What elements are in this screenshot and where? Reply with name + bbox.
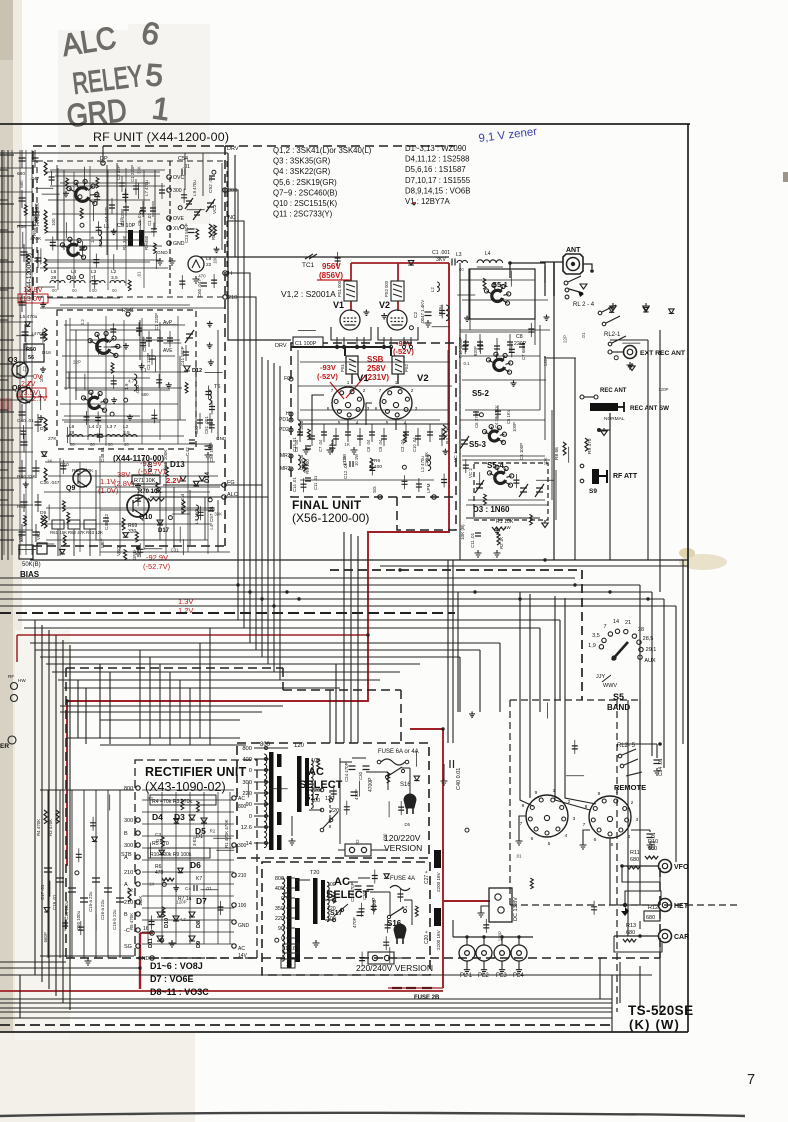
heavy grid drop V2	[390, 347, 392, 356]
C33 ground	[647, 842, 654, 849]
svg-text:800: 800	[242, 746, 252, 752]
center bundle wire 3	[255, 354, 257, 650]
svg-text:210: 210	[228, 295, 237, 301]
svg-text:D6: D6	[190, 860, 201, 870]
L4 core lines	[477, 267, 503, 269]
ac select upper field wire 1	[270, 788, 288, 790]
final unit field capacitor 3	[302, 465, 308, 468]
svg-text:120: 120	[327, 906, 336, 912]
x44-1170 field capacitor 20	[110, 329, 116, 332]
s5 column field wire 14	[457, 294, 475, 296]
svg-text:3KV: 3KV	[436, 257, 446, 263]
x44-1170 field wire 5	[155, 356, 157, 372]
svg-text:V1: V1	[333, 300, 344, 310]
rf lower field capacitor lead 10	[200, 506, 202, 520]
T1 tap terminal 90	[265, 803, 268, 806]
rectifier field ground 19	[173, 885, 179, 891]
svg-text:REC ANT: REC ANT	[600, 388, 627, 394]
svg-text:C16-b 22u: C16-b 22u	[112, 909, 117, 930]
AC upper wire v1	[409, 768, 411, 800]
rectifier mesh h0	[142, 789, 234, 791]
final unit ground 2	[351, 447, 358, 454]
left column wire 0	[0, 167, 33, 169]
left column capacitor 1	[32, 158, 39, 161]
bus 620	[18, 619, 560, 621]
left bleed stub 12	[0, 461, 14, 463]
relay contact a	[564, 281, 568, 285]
rectifier field diode 14	[178, 868, 183, 873]
left column wire 8	[0, 375, 33, 377]
RF capacitor 1	[119, 183, 125, 186]
svg-text:10K: 10K	[212, 256, 217, 264]
final terminal SG	[378, 495, 382, 499]
svg-text:00: 00	[124, 442, 129, 447]
svg-text:R56: R56	[425, 454, 430, 463]
RF ATT switch bar	[592, 469, 599, 484]
s5 column field capacitor 19	[477, 346, 483, 349]
dashed bus 613	[0, 612, 455, 614]
remote to C33 wire	[631, 829, 650, 831]
x44-1170 field capacitor 25	[95, 347, 101, 350]
box wire v8	[105, 316, 107, 446]
psu dashed top	[66, 667, 283, 669]
S5 capacitor 0	[463, 342, 469, 345]
rf top right field node 9	[180, 225, 184, 229]
left bleed rung 8	[0, 409, 8, 411]
bus 672	[52, 671, 400, 673]
rf top left field resistor 20	[96, 177, 99, 188]
x44-1170 field resistor 2	[111, 363, 114, 374]
x44-1170 field wire 18	[68, 372, 70, 388]
1170 cap lead 6	[209, 413, 211, 429]
svg-text:GND: GND	[138, 956, 150, 962]
1170 wire h0	[70, 329, 160, 331]
s5 column field ground 2	[494, 528, 500, 534]
wire CAR loop	[639, 921, 641, 929]
svg-text:5: 5	[548, 841, 551, 847]
S17 contact l0	[332, 898, 335, 901]
svg-text:R5 470K: R5 470K	[129, 913, 134, 930]
svg-text:1470K: 1470K	[31, 331, 46, 337]
rf strip field ground 1	[207, 321, 213, 327]
bottom bus 1008	[0, 1007, 612, 1009]
svg-text:10K: 10K	[543, 457, 548, 465]
left bleed rung 10	[0, 469, 8, 471]
rf strip field capacitor lead 5	[211, 419, 213, 433]
fuse 2B dashes	[392, 987, 432, 989]
frame top line	[0, 123, 690, 125]
terminal FG final	[289, 377, 293, 381]
AC lower wire 7	[360, 957, 368, 959]
terminal H final	[289, 412, 293, 416]
rotary switch S5-3	[483, 425, 507, 445]
RF gnd a	[157, 258, 164, 265]
rect feed v2	[159, 664, 161, 738]
V2 pin 0	[383, 337, 385, 346]
svg-text:120P: 120P	[658, 387, 668, 392]
bottom dashed bus 1025	[0, 1024, 612, 1026]
wire antenna column	[553, 296, 555, 560]
bus 688	[64, 687, 340, 689]
S5 wire h5	[468, 499, 545, 501]
svg-text:100: 100	[311, 798, 320, 804]
RF wire h4	[45, 259, 160, 261]
rf lower field wire 4	[48, 505, 50, 521]
right drop 683	[682, 560, 684, 744]
filter bank field capacitor 12	[62, 923, 68, 926]
plate choke PS1	[344, 281, 357, 301]
RF inner terminal 300	[167, 188, 171, 192]
left bleed rung 3	[0, 259, 8, 261]
svg-text:FUSE 4A: FUSE 4A	[390, 876, 415, 882]
AC lower wire 5	[370, 891, 390, 893]
box wire h3	[52, 213, 160, 215]
left column capacitor 3	[33, 212, 40, 215]
psu dashed right	[659, 868, 661, 958]
bus junction 14	[138, 966, 141, 969]
RL2-5 wire	[620, 743, 657, 745]
driver area field capacitor 6	[335, 258, 341, 261]
left bleed stub 6	[0, 315, 14, 317]
T1 tap wire 800	[254, 747, 269, 749]
driver area field node 5	[409, 326, 413, 330]
red box -3.5V	[18, 388, 46, 397]
final wire left	[297, 350, 299, 420]
grid choke to socket V2	[397, 374, 399, 384]
R71 box	[132, 475, 160, 484]
V1 pin 3	[363, 337, 365, 346]
C2 gnd	[425, 320, 432, 327]
trimmer s54 b	[535, 484, 544, 497]
svg-text:HET: HET	[674, 903, 689, 910]
svg-text:B: B	[124, 912, 128, 918]
wire antenna column b	[544, 266, 546, 296]
svg-text:680: 680	[19, 180, 24, 188]
svg-text:90: 90	[278, 926, 284, 932]
final unit field capacitor 8	[441, 480, 447, 483]
1170 wire v0	[65, 320, 67, 390]
RF capacitor lead 6	[161, 183, 163, 199]
left column resistor 2	[44, 258, 47, 271]
bus 585	[0, 584, 640, 586]
svg-text:V1,2 : S2001A: V1,2 : S2001A	[281, 289, 336, 299]
rf lower field capacitor lead 15	[137, 492, 139, 506]
left column capacitor 11	[19, 468, 26, 471]
wire FG to bundle	[226, 485, 262, 560]
rectifier mesh v2	[175, 792, 177, 944]
x44-1170 field wire 9	[163, 342, 181, 344]
HET jack	[659, 899, 672, 912]
rect gnd d11	[169, 940, 176, 947]
svg-text:1.9: 1.9	[124, 383, 129, 390]
V1 pin 1	[343, 337, 345, 346]
R4 R3 label box	[150, 795, 216, 805]
remote dashed left	[509, 700, 511, 905]
svg-text:GND: GND	[216, 436, 227, 441]
wire to S5-1 box	[509, 263, 511, 278]
sockets area field capacitor 10	[572, 746, 578, 749]
psu top drop c	[99, 664, 101, 738]
V1 pin circle 1	[342, 345, 345, 348]
svg-text:D12: D12	[192, 368, 202, 374]
bias lead 0	[57, 529, 59, 556]
RF unit outer dashed right	[224, 146, 226, 546]
left bleed field wire 4	[36, 543, 54, 545]
s5 column field wire 16	[479, 472, 481, 488]
svg-text:DRV: DRV	[227, 146, 239, 152]
RF rotary switch a	[67, 179, 99, 205]
final unit dashed box	[291, 343, 456, 497]
ER connector	[8, 736, 16, 744]
bus 628	[24, 627, 540, 629]
wire RF top	[0, 152, 228, 154]
rf lower field node 23	[208, 498, 212, 502]
S16 contact ua	[385, 775, 388, 778]
box wire v19	[187, 456, 189, 552]
rf top left field capacitor lead 32	[51, 171, 53, 185]
svg-text:680: 680	[382, 833, 387, 841]
x44-1170 field capacitor lead 27	[153, 409, 155, 423]
wire DRV drop	[228, 153, 291, 340]
terminal PD1	[289, 418, 293, 422]
sockets area field wire 6	[566, 775, 584, 777]
svg-text:C48 81: C48 81	[100, 447, 105, 462]
left bundle vertical 3	[55, 635, 57, 996]
filter capacitor 3	[80, 898, 88, 902]
left bundle vertical 2	[48, 630, 50, 989]
left bleed field wire 7	[18, 548, 36, 550]
svg-text:680: 680	[17, 171, 25, 177]
left bleed stub 8	[0, 363, 14, 365]
mic connector a	[11, 683, 18, 690]
S5 cap lead 3	[509, 334, 511, 352]
svg-text:PS1: PS1	[340, 363, 345, 372]
svg-text:RF UNIT (X44-1200-00): RF UNIT (X44-1200-00)	[93, 130, 229, 144]
svg-text:C7 .04: C7 .04	[318, 439, 323, 452]
T2 tap wire 90 928	[286, 927, 295, 929]
s5 column field capacitor lead 4	[530, 323, 532, 337]
rect terminal 300 845	[136, 843, 140, 847]
svg-text:C24 470P: C24 470P	[344, 762, 349, 782]
svg-text:FUSE 2B: FUSE 2B	[414, 995, 440, 1001]
S5 wire v4	[551, 410, 553, 500]
lower RF wire h1	[100, 509, 215, 511]
red wire PS2 drop	[397, 263, 399, 281]
rectifier mesh h3	[142, 823, 234, 825]
gnd R2 area	[494, 550, 501, 557]
svg-text:33K: 33K	[136, 166, 141, 174]
V2 pin circle 0	[382, 345, 385, 348]
box wire h17	[48, 475, 218, 477]
terminal lower a	[372, 955, 377, 960]
svg-text:33K: 33K	[214, 512, 222, 517]
svg-text:EXT REC ANT: EXT REC ANT	[640, 350, 686, 357]
bottom bus 1003	[0, 1002, 612, 1004]
rect feed h745	[100, 744, 246, 746]
svg-text:120: 120	[294, 743, 305, 749]
svg-text:C1: C1	[22, 365, 27, 371]
svg-text:800: 800	[275, 876, 284, 882]
svg-text:C11 .01: C11 .01	[313, 475, 318, 490]
S16 blade upper	[388, 767, 402, 776]
svg-text:680: 680	[648, 846, 657, 852]
s5 b+ companion a	[447, 560, 449, 743]
V1 base wire	[331, 327, 371, 340]
svg-text:RF: RF	[8, 674, 14, 679]
svg-text:.047: .047	[30, 176, 40, 182]
rf top left field capacitor 16	[96, 227, 102, 230]
rf strip field capacitor 6	[209, 407, 215, 410]
band position 29,1	[639, 647, 643, 651]
svg-text:FUSE 6A or 4A: FUSE 6A or 4A	[378, 749, 419, 755]
left bleed stub 7	[0, 339, 14, 341]
left column cap lead 3	[35, 204, 37, 222]
final unit field capacitor lead 8	[443, 474, 445, 488]
filter bank field capacitor lead 7	[92, 817, 94, 831]
svg-text:C27 +: C27 +	[424, 870, 430, 884]
svg-text:.000: .000	[135, 385, 140, 394]
grid choke PS1 inner	[346, 356, 358, 374]
psu dashed step	[282, 668, 284, 690]
s5 column field wire 15	[510, 271, 512, 287]
svg-text:XV: XV	[173, 226, 180, 232]
svg-text:R5 470: R5 470	[152, 841, 169, 847]
rectifier mesh h4	[142, 835, 234, 837]
RF wire h6	[48, 297, 120, 299]
final s5 wire h3	[462, 299, 548, 301]
svg-text:AC: AC	[334, 876, 350, 888]
filter bank field capacitor 7	[90, 823, 96, 826]
ac select lower field capacitor 6	[397, 894, 403, 897]
bus junction 13	[65, 699, 68, 702]
capacitor CT 680P	[519, 344, 525, 347]
svg-text:S5-2: S5-2	[472, 389, 489, 398]
left bleed field capacitor 10	[20, 431, 26, 434]
svg-text:D11: D11	[40, 426, 49, 432]
capacitor C33 .01	[647, 834, 654, 838]
svg-text:2200 16V: 2200 16V	[436, 929, 441, 950]
filter capacitor 4	[92, 878, 100, 882]
svg-text:27K: 27K	[48, 436, 57, 442]
rectifier mesh h9	[142, 895, 234, 897]
trimmer VC2 s5	[475, 480, 484, 493]
rectifier mesh v6	[229, 792, 231, 944]
ANT connector ring	[567, 258, 580, 271]
EXT REC ANT jack	[624, 346, 637, 359]
rectifier mesh h2	[142, 811, 234, 813]
svg-text:680: 680	[646, 915, 655, 921]
svg-text:D5: D5	[405, 822, 411, 827]
socket1 feed a	[520, 795, 533, 806]
1170 coil L6	[68, 435, 83, 438]
bottom bus 1012	[0, 1011, 612, 1013]
RF wire h3	[45, 239, 140, 241]
rectifier field resistor 2	[161, 836, 164, 847]
ac select lower field capacitor 7	[385, 925, 391, 928]
left bleed rung 4	[0, 289, 8, 291]
rectifier unit dashed box	[135, 760, 257, 958]
rf strip field wire 3	[205, 372, 223, 374]
left column vertical 3	[25, 150, 27, 555]
svg-text:1K: 1K	[149, 881, 154, 886]
triangle ground rl2-4 b	[643, 303, 649, 311]
svg-text:12.6: 12.6	[285, 946, 296, 952]
final unit capacitor 11	[439, 436, 445, 439]
red wire PS1 to V1	[350, 301, 352, 311]
RF rotary switch b	[60, 237, 86, 259]
PL2 node	[482, 935, 485, 938]
box wire v7	[87, 322, 89, 440]
svg-text:120P: 120P	[498, 931, 503, 941]
transformer feed 1	[350, 534, 352, 743]
svg-text:RFG: RFG	[122, 308, 134, 314]
wire DC ground	[481, 906, 489, 910]
svg-text:.0047 1.4KV: .0047 1.4KV	[420, 300, 425, 324]
svg-text:1,9: 1,9	[588, 643, 596, 649]
left bleed field capacitor lead 10	[22, 425, 24, 439]
left column resistor 3	[44, 328, 47, 341]
pilot lamp PL4 outer	[511, 945, 527, 961]
band position 21	[624, 629, 628, 633]
svg-text:SG: SG	[124, 944, 132, 950]
rectifier mesh v1	[161, 792, 163, 944]
V1 pin circle 3	[362, 345, 365, 348]
final unit ground 1	[327, 447, 334, 454]
V2 pin circle 3	[409, 345, 412, 348]
red B+ riser	[67, 263, 449, 866]
left column cap lead 5	[37, 250, 39, 268]
lower RF wire h3	[100, 551, 230, 553]
RF inner divider dashed	[169, 161, 171, 297]
box wire h19	[46, 507, 215, 509]
red box 13.0V	[18, 294, 48, 303]
HET feed vertical	[639, 700, 641, 905]
1170 wire h1	[66, 377, 150, 379]
s5 b+ companion b	[452, 560, 454, 743]
sockets area field capacitor lead 10	[574, 740, 576, 754]
V1 pin circle 0	[335, 345, 338, 348]
terminal strip upper	[345, 844, 371, 856]
heavy grid drive wire	[291, 346, 391, 348]
red arrow SSB to V1 grid	[346, 376, 365, 398]
relay RL2-4 blade d	[602, 305, 616, 312]
RF wire v0	[56, 165, 58, 240]
rf lower field ground 16	[135, 483, 141, 489]
lower RF wire v2	[173, 487, 175, 548]
x44-1170 field node 14	[124, 398, 128, 402]
AC upper gnd	[289, 838, 296, 845]
svg-text:300: 300	[228, 188, 237, 194]
s5 column field resistor 3	[483, 278, 486, 289]
wire att to s9	[599, 413, 610, 430]
final unit cap lead 0	[299, 424, 301, 442]
s5 column field capacitor 5	[513, 480, 519, 483]
rf top left field wire 4	[113, 254, 115, 270]
rf top left field capacitor lead 19	[81, 241, 83, 255]
capacitor C14	[305, 478, 311, 481]
rf top right field wire 2	[187, 209, 205, 211]
left column capacitor 12	[33, 468, 40, 471]
trimmer RF b	[193, 209, 201, 220]
S5 wire h0	[460, 279, 535, 281]
left column capacitor 0	[19, 158, 26, 161]
svg-text:D13: D13	[170, 460, 185, 469]
pilot lamp PL2 inner	[482, 951, 487, 956]
RF coil L4	[70, 281, 85, 284]
wire L4 to ANT	[510, 263, 545, 283]
svg-text:D4: D4	[152, 812, 163, 822]
box wire h13	[60, 403, 178, 405]
